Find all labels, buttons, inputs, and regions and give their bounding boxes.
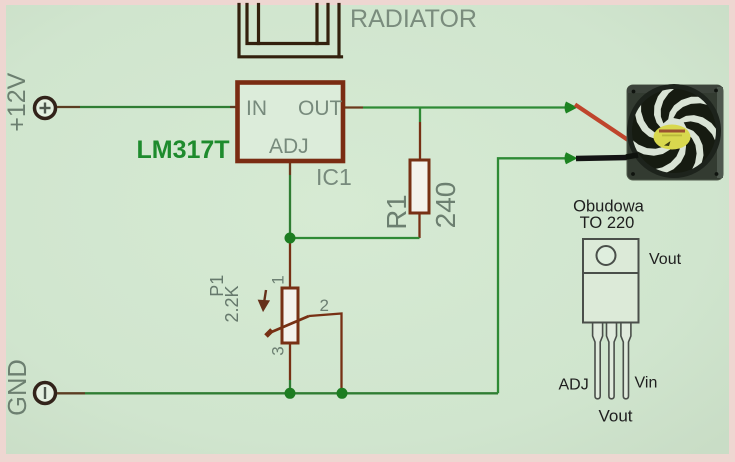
svg-text:IC1: IC1 (316, 164, 352, 190)
svg-text:OUT: OUT (298, 97, 343, 120)
svg-text:1: 1 (269, 275, 288, 284)
svg-text:LM317T: LM317T (137, 136, 230, 164)
svg-text:ADJ: ADJ (269, 135, 309, 158)
svg-text:2.2K: 2.2K (222, 285, 242, 322)
svg-text:Vin: Vin (635, 375, 658, 392)
svg-text:Obudowa: Obudowa (573, 198, 644, 216)
svg-text:TO 220: TO 220 (580, 214, 635, 232)
svg-text:IN: IN (246, 97, 267, 120)
svg-text:R1: R1 (381, 194, 412, 229)
svg-text:ADJ: ADJ (559, 377, 589, 394)
svg-text:3: 3 (269, 346, 288, 355)
svg-text:RADIATOR: RADIATOR (350, 5, 477, 33)
svg-text:Vout: Vout (599, 407, 633, 426)
svg-text:240: 240 (430, 182, 461, 229)
svg-text:+12V: +12V (3, 72, 31, 131)
svg-text:GND: GND (4, 359, 32, 416)
svg-text:2: 2 (320, 296, 329, 315)
svg-text:Vout: Vout (649, 251, 682, 268)
